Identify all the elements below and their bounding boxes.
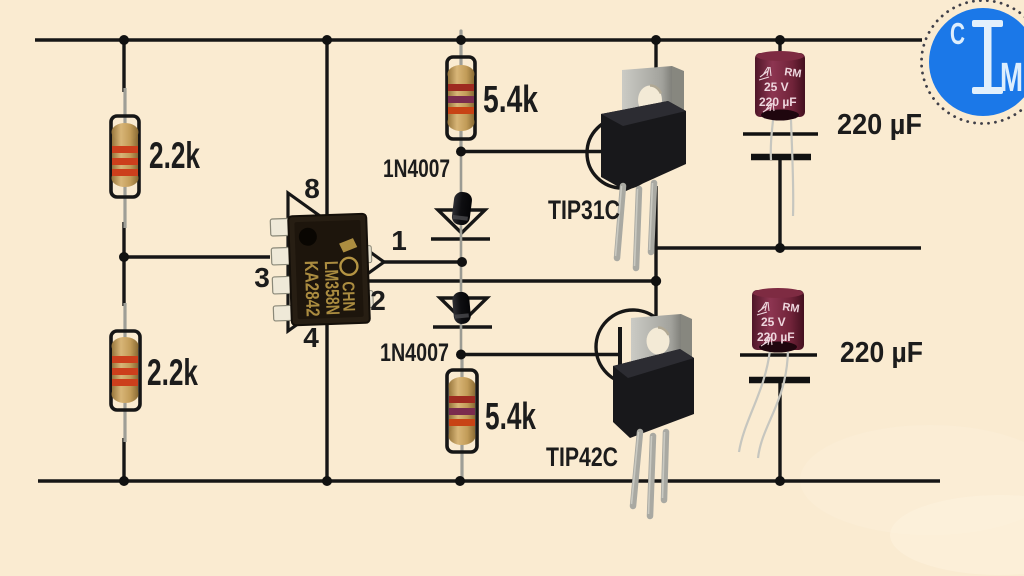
node bottom rail / left column — [119, 476, 129, 486]
svg-text:1N4007: 1N4007 — [383, 155, 450, 183]
svg-text:8: 8 — [304, 173, 320, 204]
wire Q2 base — [461, 353, 618, 356]
diode D1 photo — [451, 191, 473, 226]
svg-text:1N4007: 1N4007 — [380, 339, 449, 367]
node R3 / D1 / Q1 base — [456, 147, 466, 157]
svg-text:25 V: 25 V — [761, 315, 786, 329]
resistor R2 2.2k photo — [111, 303, 140, 442]
resistor R4 5.4k photo — [447, 357, 477, 478]
wire bottom rail — [38, 479, 940, 482]
wire op-amp pin 3 input — [124, 255, 270, 258]
wire left column lower — [122, 438, 125, 481]
capacitor C1 plates — [743, 134, 818, 157]
node output rail / C1 — [775, 243, 785, 253]
wire op-amp V+ (pin 8) — [325, 40, 328, 218]
wire left column upper — [122, 40, 125, 92]
svg-text:CHN: CHN — [338, 281, 358, 312]
svg-text:2.2k: 2.2k — [149, 135, 200, 176]
svg-text:220 µF: 220 µF — [837, 109, 922, 141]
svg-text:220 µF: 220 µF — [840, 337, 923, 369]
wire Q1 collector — [654, 40, 657, 108]
wire C2 bottom to bottom rail — [778, 380, 781, 481]
op-amp U1 symbol — [288, 193, 384, 331]
svg-text:RM: RM — [782, 301, 801, 315]
transistor Q2 photo — [613, 314, 694, 516]
diode chain lead wire — [460, 152, 463, 354]
svg-text:220 µF: 220 µF — [759, 95, 797, 109]
pin stubs left — [270, 218, 296, 321]
wire C1 bottom to output rail — [778, 158, 781, 248]
svg-text:1: 1 — [391, 225, 407, 256]
node top rail / op-amp V+ — [322, 35, 332, 45]
capacitor C2 photo — [739, 288, 804, 458]
resistor R1 2.2k photo — [111, 88, 139, 228]
node op-amp out / diode chain — [457, 257, 467, 267]
node bottom rail / op-amp V- — [322, 476, 332, 486]
transistor Q1 symbol circle — [587, 118, 657, 188]
wire Q1 base — [461, 150, 614, 153]
svg-text:2: 2 — [370, 285, 386, 316]
node pin3 / divider — [119, 252, 129, 262]
node top rail / left column — [119, 35, 129, 45]
wire top rail — [35, 38, 922, 41]
node R4 / D2 / Q2 base — [456, 350, 466, 360]
diode D2 photo — [452, 291, 472, 324]
wire feedback pin 2 to output node — [366, 279, 656, 282]
wire op-amp V- (pin 4) — [325, 305, 328, 481]
svg-text:2.2k: 2.2k — [147, 352, 198, 393]
svg-text:25 V: 25 V — [764, 80, 789, 94]
svg-text:KA2842: KA2842 — [300, 260, 323, 317]
node top rail / Q1 collector — [651, 35, 661, 45]
svg-text:4: 4 — [303, 322, 319, 353]
wire Q1 emitter to Q2 emitter — [654, 186, 657, 320]
op-amp U1 IC photo — [270, 214, 374, 326]
svg-text:M: M — [1000, 54, 1023, 100]
node bottom rail / C2 — [775, 476, 785, 486]
svg-text:3: 3 — [254, 262, 270, 293]
diode D1 symbol — [431, 210, 490, 239]
node emitters / output — [651, 276, 661, 286]
svg-text:TIP31C: TIP31C — [548, 195, 620, 225]
pin stubs right — [361, 246, 373, 308]
svg-text:220 µF: 220 µF — [757, 330, 795, 344]
transistor Q1 photo — [601, 66, 686, 268]
svg-text:5.4k: 5.4k — [483, 79, 539, 121]
logo — [922, 1, 1024, 124]
capacitor C2 plates — [740, 355, 817, 380]
capacitor C1 photo — [755, 51, 805, 216]
svg-text:RM: RM — [784, 66, 803, 80]
wire op-amp output (pin 1) — [382, 260, 462, 263]
wire output rail right — [656, 246, 921, 249]
node top rail / R3 — [456, 35, 466, 45]
wire left column middle — [122, 222, 125, 306]
resistor R3 5.4k photo — [447, 31, 475, 150]
svg-text:5.4k: 5.4k — [485, 396, 537, 438]
transistor Q2 symbol circle — [596, 310, 670, 384]
node bottom rail / R4 — [455, 476, 465, 486]
node top rail / C1 — [775, 35, 785, 45]
wire C1 top — [778, 40, 781, 60]
svg-text:TIP42C: TIP42C — [546, 442, 618, 472]
svg-text:C: C — [950, 16, 965, 51]
diode D2 symbol — [433, 298, 492, 327]
